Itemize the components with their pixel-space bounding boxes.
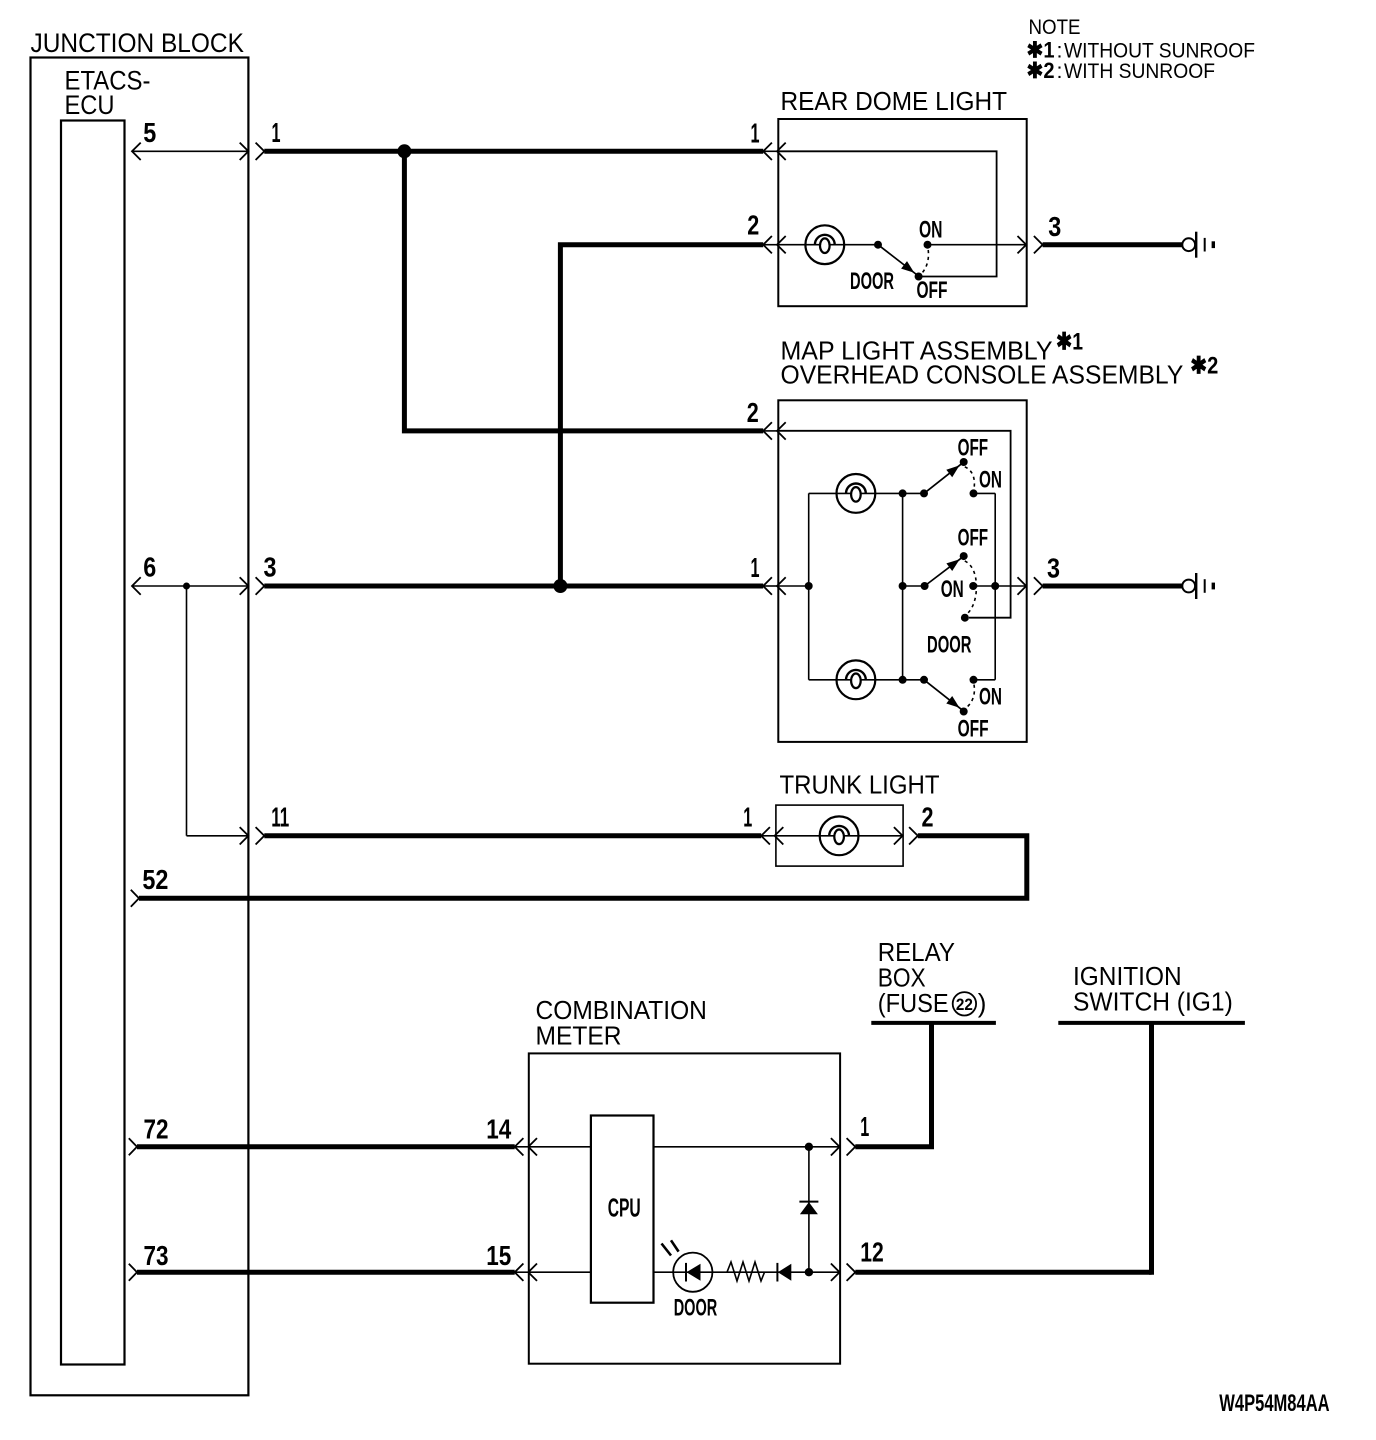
svg-text:2: 2: [747, 210, 759, 241]
dome switch dashed travel arc: [921, 250, 929, 274]
note text: [1027, 15, 1256, 83]
map pin2 connector arrows: [763, 430, 778, 432]
map top ON wire to output bus: [974, 492, 996, 494]
wire ETACS pin73 to meter pin15 (thick): [137, 1270, 515, 1275]
wire JB1 to rear dome pin1 (thick): [264, 149, 763, 154]
label ETACS-ECU: [65, 65, 151, 119]
svg-text:ON: ON: [979, 683, 1002, 710]
svg-text:1: 1: [743, 801, 752, 832]
junction node B on map pin1 wire: [553, 579, 567, 593]
svg-text:14: 14: [486, 1114, 511, 1145]
dome wire ON to pin3: [928, 244, 1027, 246]
wire JB11 to trunk light pin1 (thick): [264, 833, 761, 838]
map top switch common: [920, 489, 928, 497]
LED door indicator: [662, 1240, 713, 1291]
svg-text:52: 52: [142, 864, 168, 895]
bus node middle: [899, 582, 907, 590]
map middle switch DOOR contact: [961, 614, 969, 622]
diode D3 clamp vertical: [799, 1202, 818, 1215]
map middle switch OFF contact: [960, 552, 968, 560]
map output bus: [994, 493, 996, 679]
meter pin1 connector arrows: [831, 1138, 840, 1155]
svg-text:1: 1: [751, 117, 760, 148]
wire node A down to map pin2 (thick): [404, 151, 763, 431]
svg-text:1: 1: [860, 1111, 869, 1142]
svg-text:TRUNK LIGHT: TRUNK LIGHT: [780, 770, 940, 800]
svg-text:): ): [978, 988, 987, 1018]
svg-text:METER: METER: [536, 1020, 622, 1050]
svg-text:(FUSE: (FUSE: [878, 988, 949, 1018]
trunk light box: [776, 805, 903, 866]
svg-text:W4P54M84AA: W4P54M84AA: [1219, 1390, 1329, 1417]
map middle switch dashed arc: [965, 561, 977, 614]
wire meter pin1 to relay box (thick): [855, 1023, 931, 1147]
wire JB internal branch to pin11: [186, 586, 188, 836]
svg-text:2: 2: [747, 397, 759, 428]
connector JB pin1: [256, 143, 265, 160]
bus node bottom: [899, 676, 907, 684]
dome pin1 connector arrows: [763, 150, 778, 152]
map middle ON wire to pin3: [973, 585, 1026, 587]
svg-text:6: 6: [143, 552, 156, 583]
map pin3 connector arrows: [1018, 577, 1027, 594]
CPU box U1: [591, 1116, 654, 1303]
wire JB3 to map pin1 (thick): [264, 584, 763, 589]
map top switch dashed arc: [965, 467, 975, 489]
map bottom switch arm: [924, 680, 962, 710]
svg-text:5: 5: [143, 117, 156, 148]
svg-text:✱1: ✱1: [1056, 329, 1083, 356]
label RELAY BOX (FUSE 22): [878, 937, 987, 1018]
map top switch OFF contact: [960, 458, 968, 466]
svg-text:CPU: CPU: [608, 1193, 641, 1223]
svg-text:OFF: OFF: [958, 715, 989, 742]
bus node top: [899, 489, 907, 497]
svg-text:DOOR: DOOR: [927, 632, 972, 659]
node D2 bottom: [805, 1268, 813, 1276]
ignition switch bus bar: [1058, 1021, 1245, 1025]
svg-text::: :: [1057, 59, 1063, 83]
dome switch arm to DOOR/OFF: [878, 245, 917, 275]
map bottom switch OFF contact: [960, 708, 968, 716]
map internal wire pin2 to DOOR contact: [778, 431, 1010, 618]
meter pin12 connector arrows: [831, 1264, 840, 1281]
label IGNITION SWITCH (IG1): [1073, 961, 1233, 1017]
svg-text:ON: ON: [919, 216, 943, 243]
svg-text:NOTE: NOTE: [1029, 15, 1081, 39]
wire dome pin3 to ground (thick): [1043, 242, 1183, 247]
map middle switch ON contact: [969, 582, 977, 590]
output bus node: [991, 582, 999, 590]
svg-text:DOOR: DOOR: [674, 1295, 718, 1322]
wire meter pin12 to ignition switch (thick): [855, 1270, 1151, 1275]
svg-text:11: 11: [271, 801, 289, 832]
svg-text:OFF: OFF: [917, 277, 948, 304]
wire ETACS pin5 to JB internal: [132, 150, 248, 152]
lamp map bottom: [837, 660, 876, 699]
svg-text:3: 3: [264, 552, 277, 583]
junction node A: [397, 144, 411, 158]
meter pin14 connector arrows: [515, 1146, 529, 1148]
dome internal path pin1 to OFF contact: [778, 151, 996, 276]
svg-text:✱2: ✱2: [1190, 353, 1218, 380]
dome switch OFF contact: [915, 273, 923, 281]
map middle bus: [902, 493, 904, 679]
svg-text:ECU: ECU: [65, 90, 115, 120]
map middle switch common: [921, 582, 929, 590]
connector JB pin11: [256, 827, 265, 844]
map middle switch line from bus: [903, 585, 925, 587]
svg-text:12: 12: [860, 1236, 884, 1267]
combination meter box: [529, 1053, 840, 1363]
map top switch ON contact: [970, 489, 978, 497]
vertical wire between nodes: [808, 1147, 810, 1272]
svg-text:22: 22: [956, 995, 973, 1014]
dome switch common node: [874, 241, 882, 249]
svg-text:15: 15: [486, 1240, 511, 1271]
lamp map top: [837, 474, 876, 513]
diode D2 series: [777, 1263, 791, 1282]
map left lamp bus: [808, 493, 810, 679]
dome internal wire pin2 to switch: [778, 244, 878, 246]
ground G1: [1182, 232, 1213, 258]
wire map pin3 to ground (thick): [1043, 584, 1183, 589]
svg-text:2: 2: [922, 801, 934, 832]
meter wire pin15 row: [529, 1271, 591, 1273]
map internal wire pin1 stub: [778, 585, 808, 587]
junction block box: [31, 58, 249, 1396]
svg-text:OFF: OFF: [958, 434, 989, 461]
map middle switch arm: [925, 558, 962, 586]
wire ETACS pin6 to JB internal: [132, 585, 248, 587]
svg-text:✱2: ✱2: [1027, 58, 1055, 83]
svg-text:73: 73: [144, 1240, 169, 1271]
map bottom switch ON contact: [970, 676, 978, 684]
svg-text:1: 1: [272, 117, 281, 148]
svg-text:OFF: OFF: [958, 524, 989, 551]
wire trunk pin2 to ETACS pin52 (thick): [139, 836, 1027, 898]
svg-text:72: 72: [144, 1114, 169, 1145]
svg-text:ON: ON: [941, 576, 964, 603]
lamp trunk light: [820, 816, 859, 855]
node on pin6 wire: [183, 583, 190, 590]
ignition switch feed wire (thick): [1149, 1023, 1154, 1275]
map bottom switch dashed arc: [965, 685, 975, 709]
trunk pin1 connector arrows: [761, 835, 776, 837]
meter wire pin14 row: [529, 1146, 591, 1148]
svg-text:1: 1: [751, 552, 760, 583]
lamp rear dome: [805, 225, 844, 264]
svg-text:ON: ON: [979, 466, 1002, 493]
trunk pin2 connector arrows: [894, 827, 903, 844]
svg-text:SWITCH (IG1): SWITCH (IG1): [1073, 987, 1233, 1017]
dome pin3 connector arrows: [1018, 236, 1027, 253]
resistor R1: [727, 1262, 765, 1281]
svg-text:WITH SUNROOF: WITH SUNROOF: [1064, 59, 1215, 83]
dome switch ON contact: [924, 241, 932, 249]
map pin1 connector arrows: [763, 585, 778, 587]
wire dome pin2 (thick): [560, 245, 763, 586]
wire ETACS pin72 to meter pin14 (thick): [137, 1144, 515, 1149]
map bottom ON wire to output bus: [974, 679, 996, 681]
relay box bus bar: [871, 1021, 996, 1025]
label COMBINATION METER: [536, 995, 707, 1051]
label MAP LIGHT ASSEMBLY *1 / OVERHEAD CONSOLE ASSEMBLY *2: [781, 329, 1219, 390]
dome pin2 connector arrows: [763, 244, 778, 246]
ETACS-ECU box: [61, 121, 125, 1365]
map top switch arm: [924, 464, 962, 494]
svg-text:DOOR: DOOR: [850, 268, 894, 295]
map pin1 bus node: [805, 582, 813, 590]
map bottom switch common: [920, 676, 928, 684]
map top lamp branch: [809, 492, 924, 494]
map light assembly box: [778, 400, 1026, 742]
trunk internal wire: [776, 835, 903, 837]
map bottom lamp branch: [809, 679, 924, 681]
svg-text:JUNCTION BLOCK: JUNCTION BLOCK: [31, 28, 244, 58]
node D1 top: [805, 1143, 813, 1151]
arrow at pin52: [131, 890, 139, 907]
connector JB pin3: [256, 577, 265, 594]
meter pin15 connector arrows: [515, 1271, 529, 1273]
svg-text:OVERHEAD CONSOLE ASSEMBLY: OVERHEAD CONSOLE ASSEMBLY: [781, 360, 1184, 390]
svg-text:REAR DOME LIGHT: REAR DOME LIGHT: [781, 86, 1008, 116]
ground G2: [1182, 573, 1213, 599]
svg-text:3: 3: [1048, 211, 1061, 242]
rear dome light box: [778, 119, 1026, 306]
svg-text:3: 3: [1047, 552, 1060, 583]
